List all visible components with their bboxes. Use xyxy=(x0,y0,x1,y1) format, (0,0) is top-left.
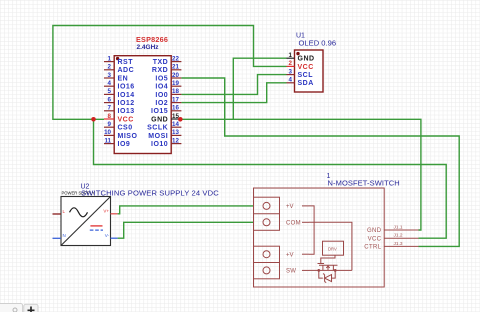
U2 pin V- xyxy=(105,233,118,238)
svg-text:3: 3 xyxy=(108,72,112,79)
body diode D1 xyxy=(319,270,335,282)
label POWER SUPPLY (small) xyxy=(62,190,95,195)
svg-text:IO15: IO15 xyxy=(151,108,168,115)
svg-text:5: 5 xyxy=(108,88,112,95)
svg-text:7: 7 xyxy=(108,105,112,112)
label J1.3 xyxy=(394,241,403,247)
OLED pin stubs 1-4 xyxy=(287,58,295,83)
svg-text:1: 1 xyxy=(289,52,293,59)
wire VCC net: ESP pin8 to top loop to OLED pin2 xyxy=(53,26,287,120)
internal wire COM to drain xyxy=(309,222,352,270)
svg-text:MOSI: MOSI xyxy=(148,133,168,140)
U2 pin L xyxy=(53,209,66,214)
label +V (lower) xyxy=(286,252,294,258)
svg-text:VCC: VCC xyxy=(368,236,382,242)
svg-text:IO0: IO0 xyxy=(155,92,168,99)
svg-text:COM: COM xyxy=(286,221,301,227)
transistor Q1 N-MOSFET symbol xyxy=(318,264,338,271)
ESP8266 left pin numbers xyxy=(104,55,111,144)
svg-text:VCC: VCC xyxy=(118,116,134,123)
label ESP8266 xyxy=(136,35,168,44)
ESP8266 right pin numbers xyxy=(172,55,179,144)
junction dot drain xyxy=(334,269,337,272)
svg-text:2.4GHz: 2.4GHz xyxy=(137,44,160,51)
junction dot GND rail at pin15 xyxy=(178,117,183,122)
svg-text:17: 17 xyxy=(172,96,179,103)
label VCC (module pin) xyxy=(368,236,382,242)
gate driver box DRV xyxy=(323,241,344,255)
svg-text:IO16: IO16 xyxy=(118,84,135,91)
OLED display U1 body xyxy=(295,50,324,92)
terminal block lower (+V / SW) xyxy=(254,246,280,279)
wire PSU V+ to MOSFET +V xyxy=(118,206,254,214)
label U1 xyxy=(296,33,305,40)
wire GND net: OLED pin1 down to GND rail xyxy=(233,58,286,119)
svg-text:CS0: CS0 xyxy=(118,125,133,132)
label U2 xyxy=(81,184,90,191)
IC ESP8266 module body xyxy=(114,56,171,154)
label 1 (designator) xyxy=(327,173,331,180)
ESP8266 right pin stubs 22-12 xyxy=(171,62,181,144)
svg-text:GND: GND xyxy=(367,228,382,234)
svg-text:ADC: ADC xyxy=(118,67,135,74)
wire GND rail: ESP pin15 to MOSFET J1.1 xyxy=(180,119,421,230)
label COM xyxy=(286,221,301,227)
N-MOSFET-SWITCH module box xyxy=(254,188,385,287)
wire SDA: ESP pin17 IO2 to OLED pin4 xyxy=(181,83,286,103)
U2 AC sine symbol xyxy=(70,208,88,217)
internal wire +V bracket xyxy=(309,206,314,254)
svg-text:SCLK: SCLK xyxy=(147,125,168,132)
svg-text:IO10: IO10 xyxy=(151,141,168,148)
power supply U2 body xyxy=(61,197,111,246)
svg-text:GND: GND xyxy=(151,116,168,123)
svg-text:GND: GND xyxy=(298,56,315,63)
svg-text:V-: V- xyxy=(105,233,110,238)
wire VCC branch: junction down to MOSFET J1.2 xyxy=(94,119,447,238)
svg-text:+V: +V xyxy=(286,204,294,210)
label J1.2 xyxy=(394,233,403,239)
svg-text:6: 6 xyxy=(108,96,112,103)
svg-text:2: 2 xyxy=(108,64,112,71)
internal wire SW rail xyxy=(309,269,352,271)
wire SCL: ESP pin18 IO0 to OLED pin3 xyxy=(181,75,286,95)
junction dot VCC branch xyxy=(91,117,96,122)
svg-text:RST: RST xyxy=(118,59,134,66)
svg-text:N: N xyxy=(63,233,66,238)
wire CTRL: ESP pin20 IO5 to MOSFET J1.3 xyxy=(181,78,459,246)
label OLED 0.96 xyxy=(299,39,337,48)
svg-text:12: 12 xyxy=(172,137,179,144)
svg-text:IO4: IO4 xyxy=(155,84,168,91)
svg-text:4: 4 xyxy=(108,80,112,87)
label N-MOSFET-SWITCH xyxy=(328,179,400,188)
UI plus button xyxy=(24,304,38,312)
label SW xyxy=(286,269,296,275)
svg-text:VCC: VCC xyxy=(298,64,314,71)
svg-text:SCL: SCL xyxy=(298,72,314,79)
svg-text:8: 8 xyxy=(108,113,112,120)
svg-text:MISO: MISO xyxy=(118,133,138,140)
svg-text:14: 14 xyxy=(172,121,179,128)
label +V (upper) xyxy=(286,204,294,210)
label J1.1 xyxy=(394,225,403,231)
svg-text:IO2: IO2 xyxy=(155,100,168,107)
internal wire DRV gate xyxy=(321,255,335,263)
svg-text:2: 2 xyxy=(289,60,293,67)
ESP8266 left pin stubs 1-11 xyxy=(104,62,114,144)
svg-text:IO9: IO9 xyxy=(118,141,131,148)
junction dot source xyxy=(317,269,320,272)
svg-text:20: 20 xyxy=(172,72,179,79)
svg-text:SWITCHING POWER SUPPLY 24 VDC: SWITCHING POWER SUPPLY 24 VDC xyxy=(81,188,219,197)
svg-text:N-MOSFET-SWITCH: N-MOSFET-SWITCH xyxy=(328,179,400,188)
label SWITCHING POWER SUPPLY 24 VDC xyxy=(81,188,219,197)
svg-text:21: 21 xyxy=(172,64,179,71)
svg-text:TXD: TXD xyxy=(153,59,169,66)
OLED pin names xyxy=(298,56,315,88)
U2 DC symbol xyxy=(90,226,103,230)
UI zoom button left xyxy=(0,304,23,312)
label GND (module pin) xyxy=(367,228,382,234)
svg-text:13: 13 xyxy=(172,129,179,136)
svg-text:IO5: IO5 xyxy=(155,75,168,82)
svg-text:CTRL: CTRL xyxy=(364,245,382,251)
svg-text:J1.1: J1.1 xyxy=(394,225,403,231)
OLED pin numbers xyxy=(289,52,293,84)
U2 pin N xyxy=(53,233,66,238)
svg-text:DRV: DRV xyxy=(328,246,337,251)
svg-text:OLED 0.96: OLED 0.96 xyxy=(299,39,337,48)
ESP8266 left pin names xyxy=(118,59,138,148)
terminal block upper (+V / COM) xyxy=(254,197,280,230)
svg-text:+V: +V xyxy=(286,252,294,258)
internal pin stubs of terminal labels xyxy=(302,206,309,271)
ESP8266 right pin names xyxy=(147,59,168,148)
label 2.4GHz xyxy=(137,44,160,51)
svg-text:V+: V+ xyxy=(103,209,109,214)
svg-text:IO12: IO12 xyxy=(118,100,135,107)
svg-text:IO13: IO13 xyxy=(118,108,135,115)
svg-text:3: 3 xyxy=(289,68,293,75)
U2 pin V+ xyxy=(103,209,117,214)
svg-text:J1.3: J1.3 xyxy=(394,241,403,247)
label CTRL (module pin) xyxy=(364,245,382,251)
svg-text:4: 4 xyxy=(289,77,293,84)
svg-text:9: 9 xyxy=(108,121,112,128)
svg-text:J1.2: J1.2 xyxy=(394,233,403,239)
svg-text:RXD: RXD xyxy=(152,67,168,74)
svg-text:11: 11 xyxy=(104,137,111,144)
svg-text:EN: EN xyxy=(118,75,129,82)
svg-text:19: 19 xyxy=(172,80,179,87)
wire PSU V- to MOSFET COM xyxy=(118,222,254,238)
svg-text:IO14: IO14 xyxy=(118,92,135,99)
svg-text:16: 16 xyxy=(172,105,179,112)
svg-text:SW: SW xyxy=(286,269,296,275)
svg-text:SDA: SDA xyxy=(298,80,314,87)
svg-text:10: 10 xyxy=(104,129,111,136)
MOSFET right pin stubs J1.1 J1.2 J1.3 xyxy=(384,230,418,246)
svg-text:22: 22 xyxy=(172,55,179,62)
svg-text:1: 1 xyxy=(108,55,112,62)
svg-text:18: 18 xyxy=(172,88,179,95)
